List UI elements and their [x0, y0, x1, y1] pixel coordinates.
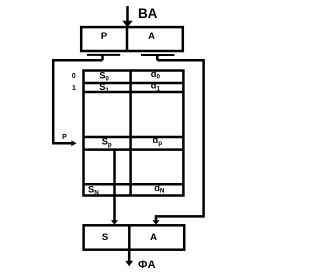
svg-text:A: A: [150, 232, 157, 243]
svg-text:ВА: ВА: [138, 6, 158, 21]
svg-text:0: 0: [72, 73, 76, 80]
svg-text:S: S: [102, 232, 108, 243]
svg-text:1: 1: [72, 85, 76, 92]
svg-text:P: P: [62, 134, 67, 141]
svg-text:A: A: [148, 31, 155, 42]
svg-text:P: P: [101, 31, 108, 42]
svg-text:ФА: ФА: [138, 259, 156, 271]
